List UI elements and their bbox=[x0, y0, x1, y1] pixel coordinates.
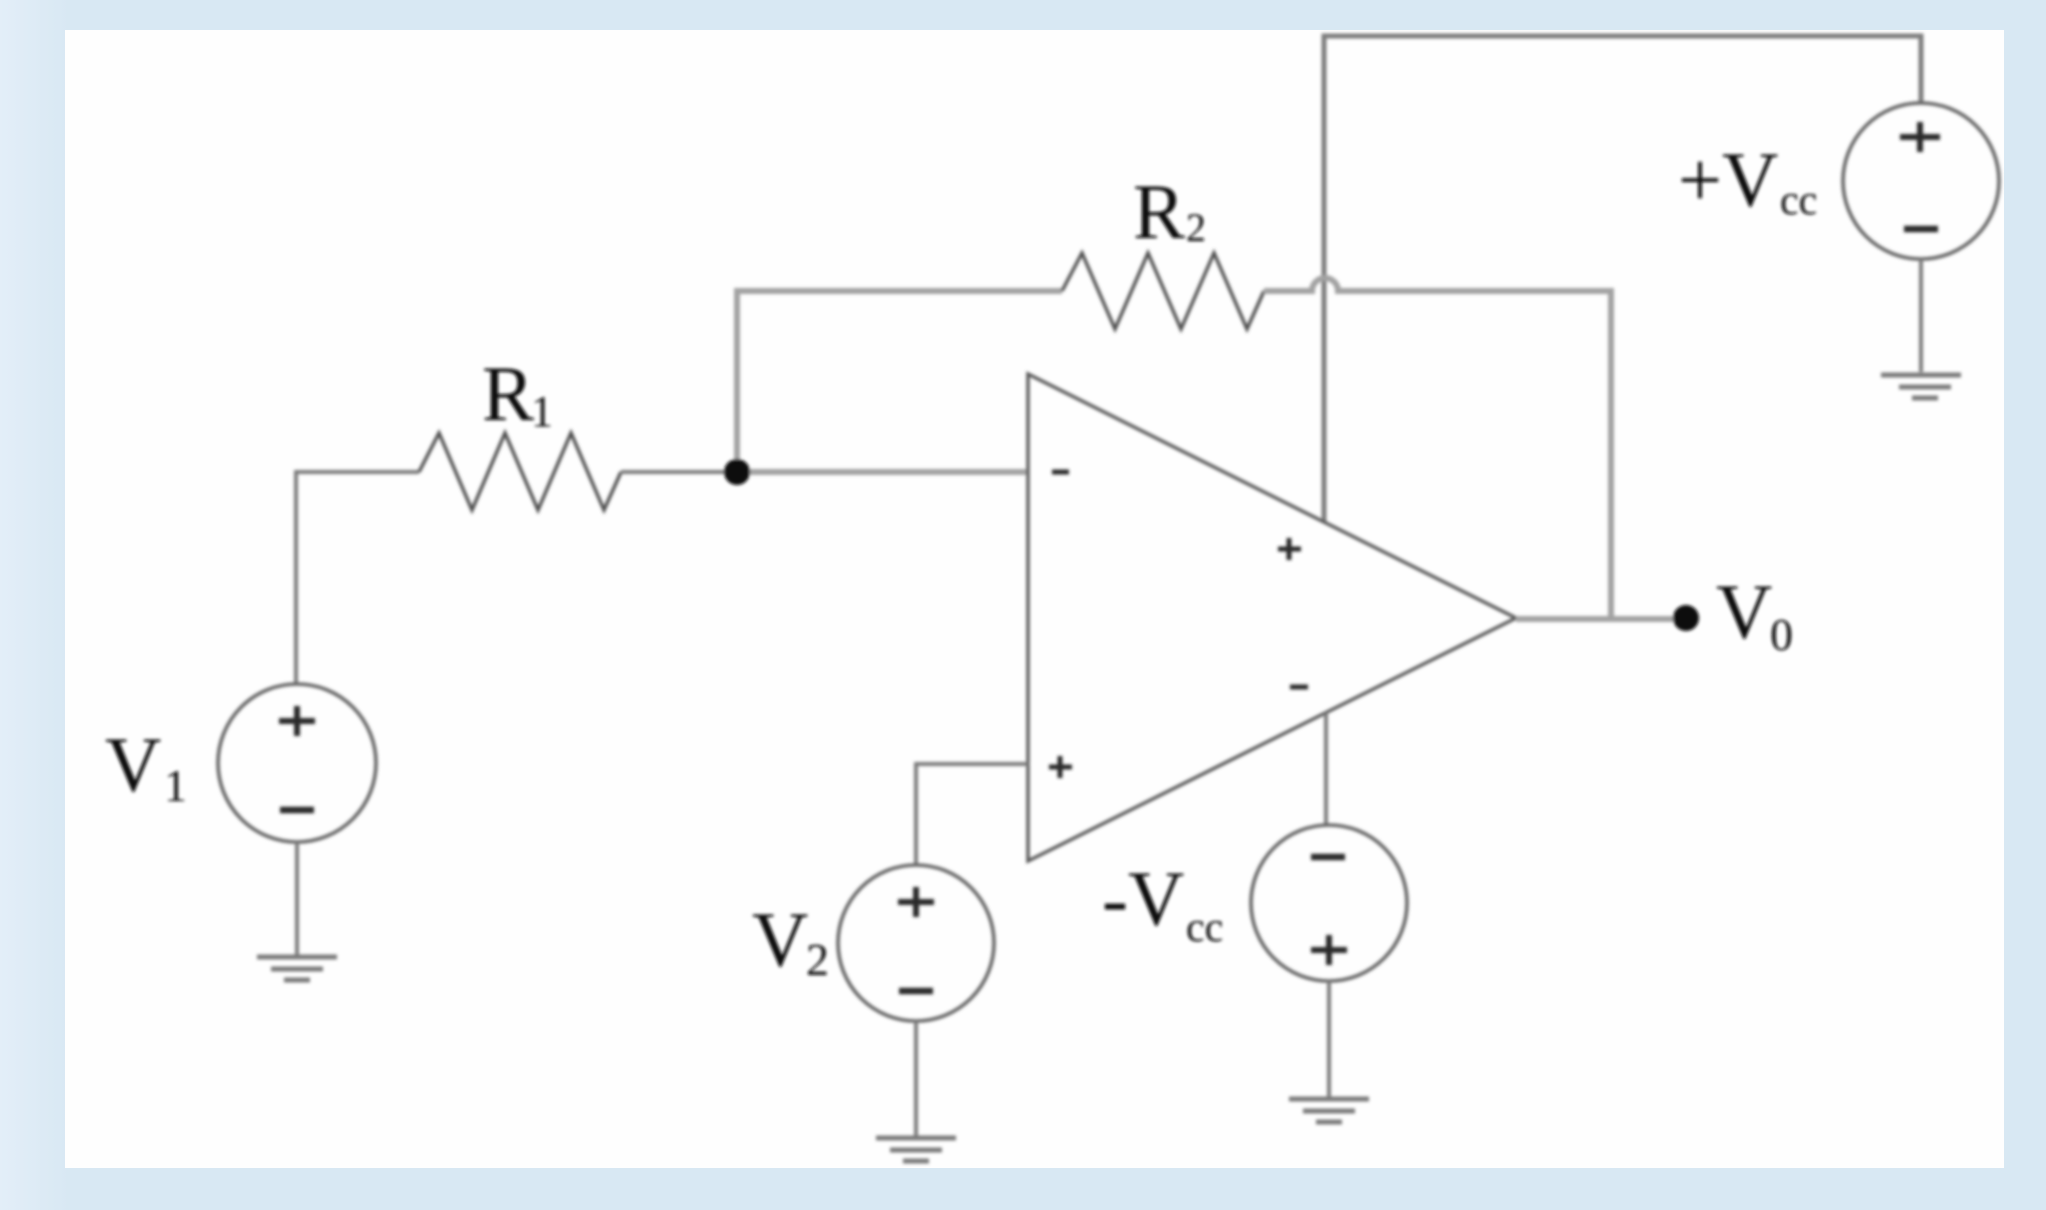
voltage source -Vcc bbox=[1251, 825, 1407, 981]
label -Vcc bbox=[1102, 855, 1223, 951]
op-amp U1 bbox=[1028, 374, 1516, 861]
svg-text:R: R bbox=[482, 350, 534, 437]
voltage source +Vcc bbox=[1843, 103, 1999, 259]
label +Vcc bbox=[1678, 136, 1817, 224]
ground (+Vcc) bbox=[1881, 375, 1961, 398]
wire feedback: node up and across to R2 bbox=[737, 291, 1062, 472]
node V0 (output dot) bbox=[1673, 605, 1699, 631]
resistor R1 bbox=[419, 433, 621, 510]
wire node to op-amp inverting input bbox=[737, 469, 1028, 475]
wire V1 corner to R1 bbox=[296, 472, 419, 684]
svg-text:V: V bbox=[105, 721, 161, 808]
wire -Vcc to ground bbox=[1327, 981, 1331, 1097]
ground (V1) bbox=[257, 957, 337, 980]
resistor R2 bbox=[1062, 253, 1264, 329]
ground (V2) bbox=[876, 1138, 956, 1161]
svg-text:+V: +V bbox=[1678, 136, 1778, 223]
label V1 bbox=[105, 721, 187, 811]
svg-text:-V: -V bbox=[1102, 855, 1184, 942]
voltage source V1 bbox=[218, 684, 376, 842]
wire from op-amp V+ pin up and across to +Vcc source bbox=[1324, 36, 1921, 522]
label V0 bbox=[1716, 568, 1793, 660]
ground (-Vcc) bbox=[1289, 1099, 1369, 1122]
label R2 bbox=[1133, 168, 1206, 255]
op-amp non-inverting input symbol + bbox=[1049, 756, 1072, 778]
voltage source V2 bbox=[838, 865, 994, 1021]
label V2 bbox=[752, 896, 829, 985]
op-amp V+ supply symbol + bbox=[1278, 538, 1301, 560]
op-amp V- supply symbol - bbox=[1290, 685, 1308, 690]
wire V2 to ground bbox=[914, 1021, 918, 1136]
wire R2 to feedback corner with hop over supply line, down to output bbox=[1264, 278, 1611, 619]
wire op-amp output to V0 node bbox=[1516, 616, 1683, 622]
svg-text:2: 2 bbox=[1186, 205, 1206, 250]
node A (junction dot at inverting input) bbox=[724, 459, 750, 485]
wire V2 to op-amp non-inverting input bbox=[916, 764, 1028, 865]
svg-text:1: 1 bbox=[164, 760, 187, 811]
svg-text:1: 1 bbox=[531, 387, 553, 436]
wire R1 to node bbox=[621, 470, 737, 474]
wire V1 to ground bbox=[295, 842, 299, 955]
op-amp inverting input symbol - bbox=[1052, 470, 1069, 475]
svg-text:V: V bbox=[1716, 568, 1772, 655]
wire op-amp V- pin to -Vcc bbox=[1324, 713, 1328, 825]
svg-text:cc: cc bbox=[1780, 178, 1817, 224]
svg-text:2: 2 bbox=[806, 934, 829, 985]
svg-text:cc: cc bbox=[1186, 905, 1223, 951]
svg-text:V: V bbox=[752, 896, 808, 983]
svg-text:0: 0 bbox=[1770, 609, 1793, 660]
wire +Vcc to ground bbox=[1919, 259, 1923, 372]
label R1 bbox=[482, 350, 553, 437]
svg-text:R: R bbox=[1133, 168, 1185, 255]
